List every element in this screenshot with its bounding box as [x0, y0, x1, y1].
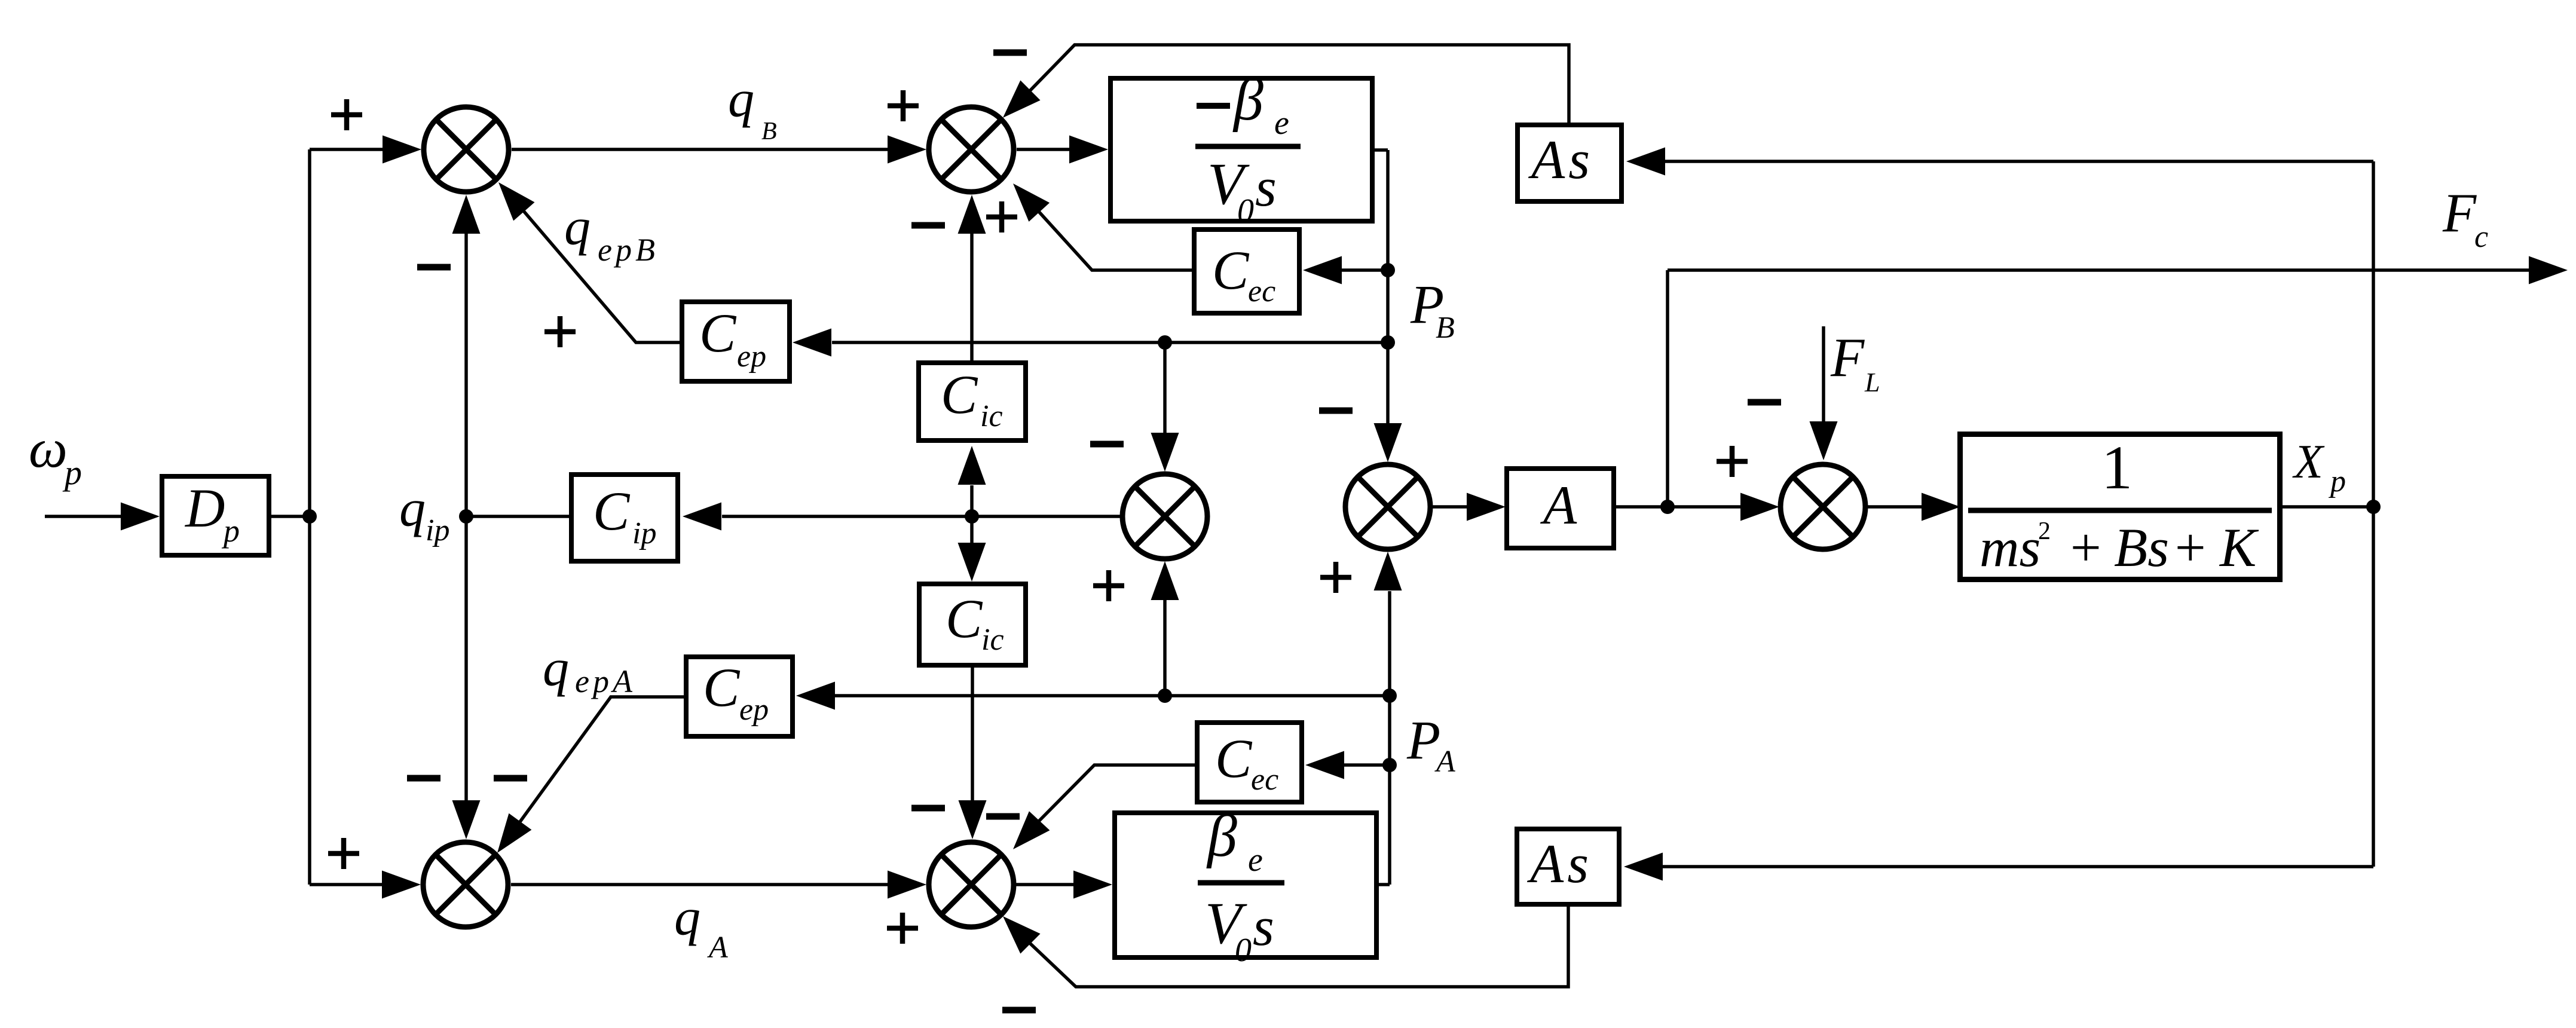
svg-text:p: p — [62, 453, 82, 492]
svg-text:β: β — [1232, 66, 1263, 133]
block As top (piston area x s) — [1518, 125, 1622, 201]
summer S1 (top left) — [424, 107, 509, 192]
wire: C_ip output to q_ip node — [466, 515, 569, 518]
minus sign at S1 bottom input — [417, 264, 451, 271]
minus sign at S7 C_ec input — [986, 813, 1020, 820]
svg-text:β: β — [1206, 803, 1237, 869]
arrowhead C_ec bottom output into S7 upper-right (-) — [1013, 811, 1050, 849]
svg-text:F: F — [1830, 327, 1865, 388]
wire: P_A up into S3 bottom — [1163, 599, 1167, 696]
svg-text:p: p — [221, 513, 240, 549]
minus sign inside -Be/V0s numerator — [1197, 103, 1230, 109]
arrowhead into load block — [1922, 493, 1960, 521]
label q_B — [728, 71, 777, 145]
block As bottom (piston area x s) — [1517, 829, 1619, 904]
node: P_A to C_ep junction — [1382, 689, 1397, 703]
svg-text:C: C — [941, 364, 978, 425]
label F_c — [2442, 182, 2488, 254]
arrowhead As bottom feedback into S7 lower-right (-) — [1003, 916, 1041, 954]
arrowhead into As bottom block — [1624, 853, 1663, 881]
node: P_B to C_ep junction — [1381, 335, 1395, 350]
plus sign at S2 bottom-right (C_ec input) — [986, 201, 1017, 232]
minus sign at S6 top input — [407, 775, 440, 782]
node: force F_c tap junction — [1660, 500, 1675, 514]
svg-text:B: B — [1436, 311, 1455, 345]
label X_p — [2292, 436, 2346, 498]
block C_ec top (external leakage coeff) — [1194, 230, 1299, 313]
wire: D_p output to branch node — [271, 515, 310, 518]
minus sign at S2 bottom-left — [911, 222, 945, 229]
wire: F_c output line — [1668, 268, 2531, 272]
arrowhead into C_ic top bottom edge — [958, 446, 986, 485]
wire: branch to summer S1 — [310, 148, 386, 151]
plus sign at S2 left input — [888, 90, 919, 121]
svg-text:C: C — [946, 588, 983, 649]
svg-text:ic: ic — [981, 623, 1004, 657]
node: q_ip junction — [459, 509, 473, 524]
arrowhead into C_ep top — [793, 329, 831, 357]
arrowhead into C_ec bottom — [1305, 751, 1344, 779]
wire: C_ec top output diagonal to S2 — [1039, 212, 1192, 270]
fraction bar of -Be/V0s — [1195, 144, 1301, 149]
block C_ec bottom (external leakage coeff) — [1197, 723, 1302, 802]
wire: S5 output into load block — [1868, 505, 1923, 509]
svg-text:2: 2 — [2038, 518, 2051, 545]
svg-text:+: + — [2171, 517, 2208, 578]
label omega_p (pump speed input) — [29, 418, 82, 492]
block C_ip (pump internal leakage coeff) — [571, 475, 678, 561]
arrowhead q_ip into S1 bottom (-) — [452, 195, 481, 234]
svg-text:q: q — [564, 198, 591, 256]
node: P_A to C_ec junction — [1382, 758, 1397, 772]
summer S4 (net flow P_A - P_B) — [1345, 464, 1430, 549]
node: D_p output branch junction — [302, 509, 317, 524]
summer S7 (bottom middle) — [929, 842, 1014, 927]
minus sign at S7 As feedback — [1002, 1007, 1036, 1014]
wire: C_ic bottom output down to S7 — [971, 668, 974, 801]
block D_p (pump displacement) — [162, 476, 269, 555]
svg-text:0: 0 — [1235, 932, 1252, 969]
svg-text:F: F — [2442, 182, 2477, 243]
svg-text:X: X — [2292, 436, 2325, 488]
plus sign at S1 left input — [331, 99, 362, 130]
svg-text:Bs: Bs — [2114, 517, 2169, 578]
arrowhead into D_p — [121, 503, 160, 531]
minus sign at q_epA input — [494, 775, 527, 782]
wire: junction down into C_ic bottom — [970, 516, 974, 543]
arrowhead into As top block — [1626, 148, 1665, 176]
wire: C_ic top output up to S2 — [970, 233, 974, 360]
block C_ep top (pump external leakage coeff) — [682, 302, 790, 381]
svg-text:As: As — [1526, 833, 1592, 894]
wire: X_p output — [2283, 505, 2373, 509]
plus sign at S4 bottom input — [1320, 562, 1351, 593]
plus sign at q_epB input — [544, 316, 576, 347]
node: P_B branch to S3 junction — [1158, 335, 1172, 350]
wire: q_B from S1 to S2 — [512, 148, 889, 151]
svg-text:+: + — [2067, 517, 2104, 578]
label P_A — [1406, 709, 1455, 779]
arrowhead into A block — [1467, 493, 1506, 521]
wire: X_p feedback to As bottom — [1662, 865, 2373, 868]
arrowhead C_ec output into S2 lower-right (+) — [1013, 183, 1050, 222]
label q_A — [674, 889, 728, 965]
arrowhead C_ic bottom output into S7 top (-) — [959, 800, 987, 839]
svg-text:As: As — [1528, 129, 1593, 190]
plus sign at S5 left input — [1717, 446, 1748, 477]
summer S6 (bottom left) — [423, 842, 508, 927]
arrowhead into summer S6 left (+) — [382, 871, 421, 899]
wire: omega_p input line — [45, 515, 126, 518]
summer S3 (pressure difference) — [1122, 474, 1207, 559]
svg-text:ω: ω — [29, 418, 68, 479]
node: C_ic branch junction — [965, 509, 979, 524]
wire: F_L input line — [1822, 326, 1825, 423]
arrowhead q_epB into S1 lower-right (+) — [498, 182, 535, 221]
arrowhead into C_ip — [683, 503, 721, 531]
svg-text:q: q — [728, 71, 754, 128]
svg-text:q: q — [543, 640, 569, 697]
wire: S7 output into Be/V0s block — [1016, 883, 1075, 886]
wire: P_B down into S3 top — [1163, 342, 1167, 435]
svg-text:p: p — [2328, 464, 2346, 498]
svg-text:ec: ec — [1248, 274, 1275, 308]
arrowhead q_epA into S6 upper-right (-) — [497, 813, 531, 853]
svg-text:A: A — [1434, 745, 1455, 779]
wire: As bottom output feedback to S7 — [1030, 907, 1568, 987]
svg-text:e: e — [1274, 105, 1289, 142]
wire: -Be/V0s output jog — [1375, 148, 1388, 152]
block C_ep bottom (pump external leakage coeff) — [686, 657, 793, 736]
arrowhead into summer S1 left (+) — [383, 136, 421, 164]
svg-text:ec: ec — [1251, 763, 1278, 797]
arrowhead into C_ec top — [1303, 256, 1342, 284]
wire: F_c tap up — [1666, 270, 1669, 507]
block C_ic bottom (internal leakage coeff) — [919, 584, 1026, 665]
svg-text:D: D — [184, 478, 225, 539]
wire: X_p feedback to As top — [1663, 160, 2373, 163]
arrowhead F_L into S5 top (-) — [1810, 421, 1838, 460]
wire: P_B vertical down to S4 top — [1386, 150, 1390, 425]
plus sign at S7 left input — [887, 913, 918, 944]
svg-text:0: 0 — [1237, 192, 1254, 230]
wire: P_A branch to C_ep bottom — [834, 694, 1390, 697]
svg-text:epB: epB — [598, 232, 659, 268]
arrowhead q_A into S7 left (+) — [888, 871, 926, 899]
svg-text:s: s — [1253, 896, 1274, 957]
wire: q_ip vertical line — [464, 233, 468, 801]
wire: As top output feedback to S2 — [1030, 45, 1569, 123]
arrowhead P_B into S4 top (-) — [1374, 423, 1402, 462]
block -Be/V0s (chamber B hydraulic capacitance) — [1110, 66, 1372, 230]
wire: C_ec bottom output diagonal to S7 — [1039, 765, 1195, 821]
svg-text:C: C — [593, 481, 631, 541]
node: P_A branch to S3 junction — [1158, 689, 1172, 703]
svg-text:C: C — [703, 657, 741, 718]
svg-text:c: c — [2474, 220, 2488, 254]
label P_B — [1410, 274, 1455, 345]
svg-text:B: B — [761, 118, 777, 145]
wire: C_ep bottom output to S6 (q_epA) — [520, 697, 684, 822]
label F_L — [1830, 327, 1880, 397]
arrowhead q_B into S2 left (+) — [888, 136, 926, 164]
arrowhead into C_ep bottom — [796, 682, 835, 710]
arrowhead C_ic top output into S2 bottom (+) — [958, 195, 986, 234]
minus sign at S3 top input — [1090, 441, 1124, 448]
wire: P_A vertical up to S4 bottom — [1388, 591, 1391, 885]
block Be/V0s (chamber A hydraulic capacitance) — [1115, 803, 1376, 969]
svg-text:L: L — [1864, 367, 1880, 397]
wire: junction up into C_ic top — [970, 485, 974, 516]
svg-text:P: P — [1406, 709, 1440, 770]
label q_epA — [543, 640, 636, 699]
wire: S3 output to C_ip — [722, 515, 1120, 518]
svg-text:epA: epA — [575, 663, 636, 699]
svg-text:e: e — [1248, 842, 1263, 879]
minus sign at S2 top feedback — [993, 50, 1027, 56]
svg-text:q: q — [399, 480, 426, 538]
fraction bar of load block — [1968, 508, 2272, 513]
svg-text:A: A — [1540, 475, 1577, 536]
arrowhead into C_ic bottom top edge — [958, 543, 986, 582]
fraction bar of Be/V0s — [1198, 880, 1284, 886]
block C_ic top (internal leakage coeff) — [919, 363, 1026, 440]
arrowhead into S5 left (+) — [1740, 493, 1779, 521]
wire: S2 output into -Be/V0s block — [1017, 148, 1071, 151]
arrowhead into -Be/V0s block — [1069, 136, 1108, 164]
wire: q_A from S6 to S7 — [511, 883, 889, 886]
svg-text:C: C — [1212, 240, 1250, 301]
block A (piston area) — [1507, 469, 1614, 548]
svg-text:ic: ic — [980, 399, 1003, 433]
wire: P_B branch to C_ep top — [832, 341, 1388, 344]
arrowhead q_ip into S6 top (-) — [452, 800, 481, 839]
arrowhead As feedback into S2 top-right (-) — [1003, 80, 1041, 118]
minus sign at S4 top input — [1319, 408, 1353, 414]
arrowhead into S3 top (-) — [1151, 433, 1179, 472]
wire: branch to summer S6 — [310, 883, 384, 886]
plus sign at S6 left input — [328, 838, 359, 869]
svg-text:1: 1 — [2101, 433, 2133, 502]
plus sign at S3 bottom input — [1093, 570, 1124, 601]
svg-text:K: K — [2219, 517, 2259, 578]
svg-text:ip: ip — [632, 516, 656, 550]
svg-text:ep: ep — [737, 339, 766, 374]
svg-text:A: A — [707, 931, 728, 965]
block 1/(ms2+Bs+K) (load dynamics) — [1960, 433, 2280, 580]
wire: Be/V0s output jog — [1379, 883, 1390, 886]
summer S2 (top middle) — [929, 107, 1014, 192]
svg-text:C: C — [1215, 728, 1253, 789]
wire: P_A into C_ec bottom — [1342, 763, 1390, 767]
wire: S4 output to A block — [1433, 505, 1468, 509]
label q_epB — [564, 198, 659, 268]
summer S5 (force balance) — [1780, 464, 1865, 549]
wire: X_p feedback vertical — [2372, 161, 2375, 867]
svg-text:ms: ms — [1980, 517, 2040, 578]
minus sign at S7 top input — [911, 805, 945, 812]
svg-text:ip: ip — [426, 513, 449, 547]
wire: A output to S5 — [1616, 505, 1742, 509]
arrowhead F_c output — [2529, 256, 2568, 284]
svg-text:ep: ep — [739, 693, 769, 727]
arrowhead into Be/V0s block — [1073, 871, 1112, 899]
node: X_p feedback junction — [2366, 500, 2381, 514]
arrowhead into S3 bottom (+) — [1151, 561, 1179, 600]
svg-text:s: s — [1255, 157, 1277, 218]
svg-text:C: C — [699, 302, 737, 363]
node: P_B to C_ec junction — [1381, 263, 1395, 277]
wire: P_B into C_ec top — [1339, 268, 1388, 272]
arrowhead P_A into S4 bottom (+) — [1374, 552, 1402, 591]
svg-text:q: q — [674, 889, 700, 947]
label q_ip — [399, 480, 449, 547]
wire: C_ep top output to S1 (q_epB) — [524, 211, 681, 342]
minus sign at F_L input — [1748, 399, 1781, 406]
wire: left branch vertical — [308, 149, 311, 885]
